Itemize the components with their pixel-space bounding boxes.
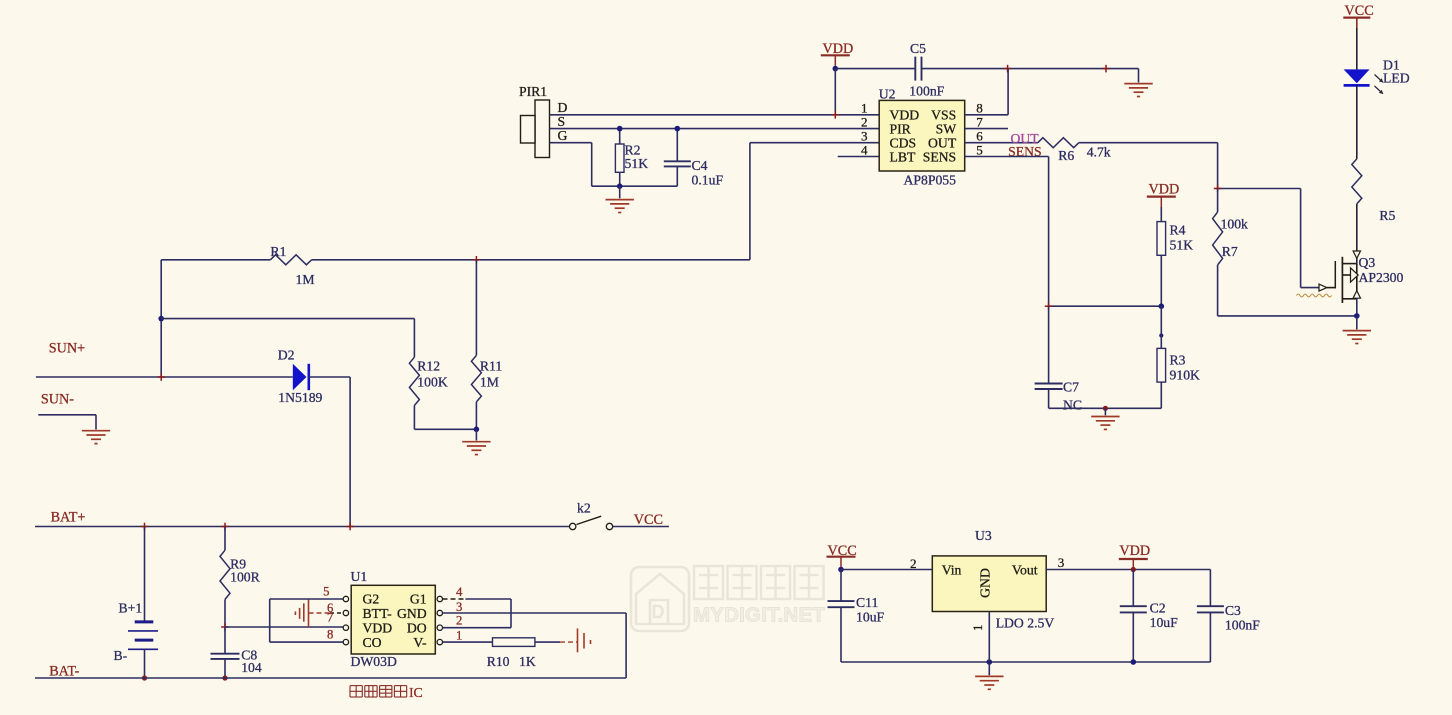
svg-text:7: 7	[327, 611, 333, 625]
svg-text:2: 2	[861, 114, 868, 129]
svg-text:Vin: Vin	[942, 563, 962, 578]
svg-text:C2: C2	[1150, 601, 1166, 616]
svg-text:C3: C3	[1225, 603, 1241, 618]
svg-text:4.7k: 4.7k	[1087, 145, 1111, 160]
svg-text:3: 3	[1058, 555, 1065, 570]
svg-text:GND: GND	[397, 606, 427, 621]
svg-text:R11: R11	[480, 359, 502, 374]
svg-text:SUN-: SUN-	[41, 392, 74, 408]
svg-text:10uF: 10uF	[1150, 615, 1179, 630]
svg-text:D2: D2	[278, 348, 295, 363]
svg-text:R1: R1	[270, 244, 286, 259]
svg-text:51K: 51K	[1170, 238, 1194, 253]
svg-text:100k: 100k	[1221, 217, 1249, 232]
svg-text:Vout: Vout	[1012, 563, 1038, 578]
svg-text:C5: C5	[910, 41, 926, 56]
svg-text:B+1: B+1	[119, 601, 143, 616]
svg-text:8: 8	[976, 101, 983, 116]
svg-text:100K: 100K	[417, 375, 448, 390]
svg-text:LED: LED	[1383, 71, 1410, 86]
svg-text:LBT: LBT	[890, 150, 916, 165]
svg-text:DW03D: DW03D	[351, 654, 397, 669]
svg-text:VDD: VDD	[1149, 182, 1180, 198]
svg-text:1M: 1M	[296, 272, 315, 287]
svg-text:NC: NC	[1063, 398, 1082, 413]
svg-text:C4: C4	[692, 158, 708, 173]
svg-text:910K: 910K	[1170, 368, 1201, 383]
svg-text:100R: 100R	[230, 570, 261, 585]
svg-text:U2: U2	[879, 87, 896, 102]
svg-text:R10: R10	[487, 654, 510, 669]
svg-text:R7: R7	[1222, 244, 1238, 259]
svg-text:8: 8	[327, 628, 333, 642]
svg-text:MYDIGIT.NET: MYDIGIT.NET	[693, 604, 825, 627]
svg-text:S: S	[558, 114, 566, 129]
svg-text:51K: 51K	[625, 156, 649, 171]
svg-text:5: 5	[323, 585, 329, 599]
svg-text:LDO 2.5V: LDO 2.5V	[996, 616, 1055, 631]
svg-text:1: 1	[861, 101, 868, 116]
svg-text:10uF: 10uF	[856, 610, 885, 625]
svg-text:BAT+: BAT+	[51, 510, 86, 526]
svg-text:R4: R4	[1170, 223, 1186, 238]
svg-text:VDD: VDD	[1119, 543, 1150, 559]
svg-text:AP2300: AP2300	[1359, 270, 1404, 285]
svg-text:1: 1	[456, 629, 462, 643]
svg-text:OUT: OUT	[928, 136, 957, 151]
svg-text:G2: G2	[363, 592, 380, 607]
svg-text:4: 4	[456, 585, 463, 599]
svg-text:R12: R12	[417, 359, 440, 374]
svg-text:1M: 1M	[480, 375, 499, 390]
svg-text:GND: GND	[978, 568, 993, 598]
svg-text:VDD: VDD	[363, 621, 393, 636]
svg-text:Q3: Q3	[1359, 255, 1376, 270]
svg-text:BTT-: BTT-	[363, 606, 393, 621]
svg-text:3: 3	[456, 600, 462, 614]
svg-text:7: 7	[976, 114, 983, 129]
svg-text:0.1uF: 0.1uF	[692, 172, 724, 187]
svg-text:U1: U1	[351, 569, 368, 584]
svg-text:IC: IC	[409, 685, 423, 700]
svg-text:U3: U3	[975, 528, 992, 543]
svg-text:R6: R6	[1058, 148, 1074, 163]
svg-text:VSS: VSS	[931, 108, 956, 123]
svg-text:104: 104	[241, 660, 262, 675]
svg-text:G: G	[558, 128, 568, 143]
svg-text:VCC: VCC	[634, 512, 663, 528]
svg-text:CO: CO	[363, 635, 382, 650]
svg-text:5: 5	[976, 142, 983, 157]
svg-text:1N5189: 1N5189	[278, 390, 322, 405]
svg-text:AP8P055: AP8P055	[904, 173, 957, 188]
svg-text:R3: R3	[1170, 353, 1186, 368]
svg-text:CDS: CDS	[890, 136, 917, 151]
svg-text:6: 6	[976, 129, 983, 144]
svg-text:C7: C7	[1063, 380, 1079, 395]
svg-text:BAT-: BAT-	[49, 664, 79, 680]
svg-text:100nF: 100nF	[909, 84, 944, 99]
svg-text:1: 1	[970, 624, 985, 631]
svg-text:SENS: SENS	[923, 150, 956, 165]
svg-text:R5: R5	[1379, 208, 1395, 223]
svg-text:100nF: 100nF	[1225, 618, 1260, 633]
svg-text:C11: C11	[856, 595, 878, 610]
svg-text:SUN+: SUN+	[49, 341, 85, 357]
svg-text:PIR1: PIR1	[519, 84, 547, 99]
svg-text:DO: DO	[407, 621, 427, 636]
svg-text:G1: G1	[410, 592, 427, 607]
svg-text:k2: k2	[577, 501, 591, 516]
svg-text:PIR: PIR	[890, 122, 912, 137]
svg-text:4: 4	[861, 142, 868, 157]
svg-text:B-: B-	[114, 648, 128, 663]
svg-text:VDD: VDD	[890, 108, 920, 123]
svg-text:3: 3	[861, 129, 868, 144]
svg-text:2: 2	[456, 614, 462, 628]
svg-text:V-: V-	[413, 635, 427, 650]
svg-text:1K: 1K	[519, 654, 536, 669]
svg-text:D: D	[558, 100, 568, 115]
svg-text:SW: SW	[936, 122, 957, 137]
